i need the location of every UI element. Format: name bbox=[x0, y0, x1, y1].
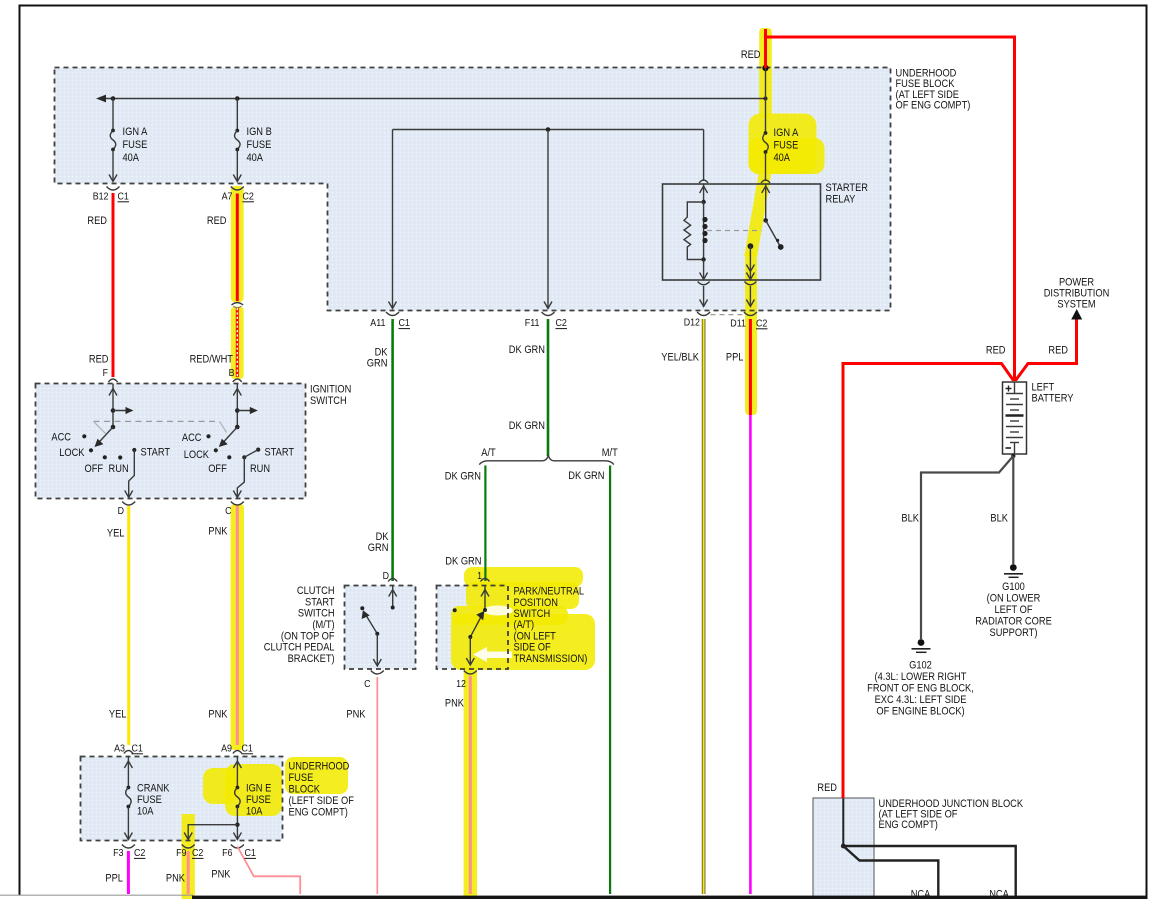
ground G102 symbol bbox=[918, 639, 925, 646]
park/neutral input wire + up arrow + node bbox=[484, 586, 486, 611]
wire DK GRN A/T leg to park/neutral pin 1 bbox=[484, 466, 486, 582]
relay terminal connector arcs (coil) bbox=[698, 282, 710, 285]
svg-text:40A: 40A bbox=[123, 152, 140, 164]
wire PNK park 12 to ground bus bbox=[469, 676, 472, 894]
fuse IGN A (right) element bbox=[764, 131, 768, 135]
ignition switch block fill bbox=[36, 384, 306, 499]
svg-text:(4.3L: LOWER RIGHT: (4.3L: LOWER RIGHT bbox=[875, 671, 967, 683]
highlight blob over IGN E fuse and lower fuse block label bbox=[225, 764, 282, 816]
svg-text:RED: RED bbox=[89, 354, 109, 366]
node relay arm end bbox=[778, 244, 784, 250]
junction block internal wire (red becomes black) bbox=[842, 799, 844, 847]
node bus tap IGN A fuse bbox=[111, 96, 116, 101]
svg-text:FUSE: FUSE bbox=[774, 140, 799, 152]
svg-text:FRONT OF ENG BLOCK,: FRONT OF ENG BLOCK, bbox=[867, 683, 974, 695]
svg-text:SIDE OF: SIDE OF bbox=[514, 642, 551, 654]
fuse IGN B out wire bbox=[236, 150, 238, 181]
svg-text:A7: A7 bbox=[222, 192, 233, 203]
svg-text:YEL: YEL bbox=[107, 528, 125, 540]
wire PNK F9 to ground bus bbox=[187, 851, 190, 894]
node junction block split bbox=[841, 844, 846, 849]
svg-text:OF ENGINE BLOCK): OF ENGINE BLOCK) bbox=[876, 706, 964, 718]
svg-text:M/T: M/T bbox=[602, 447, 618, 459]
svg-text:A11: A11 bbox=[370, 318, 386, 329]
svg-text:(ON LOWER: (ON LOWER bbox=[987, 593, 1041, 605]
svg-text:C1: C1 bbox=[242, 744, 254, 755]
svg-text:(LEFT SIDE OF: (LEFT SIDE OF bbox=[289, 795, 355, 807]
white arrow cut-out in park/neutral highlight bbox=[473, 647, 512, 662]
wire: bus2 down to A11 bbox=[392, 130, 394, 308]
svg-text:TRANSMISSION): TRANSMISSION) bbox=[514, 653, 588, 665]
relay coil winding bbox=[703, 202, 705, 260]
svg-text:PPL: PPL bbox=[726, 352, 744, 364]
ignition switch pole 2: entry wire bbox=[236, 384, 238, 428]
underhood fuse block (lower) fill bbox=[81, 757, 283, 841]
svg-text:EXC 4.3L: LEFT SIDE: EXC 4.3L: LEFT SIDE bbox=[875, 694, 967, 706]
svg-text:DK GRN: DK GRN bbox=[445, 556, 481, 568]
clutch switch output wire bbox=[376, 634, 378, 666]
connector C arc (clutch) bbox=[371, 671, 384, 675]
svg-text:SUPPORT): SUPPORT) bbox=[990, 627, 1038, 639]
svg-text:F: F bbox=[103, 368, 108, 379]
connector D arc (ignition) bbox=[122, 502, 135, 506]
wire: bus2 down to F11 bbox=[547, 130, 549, 308]
connector B12 arc bbox=[107, 187, 120, 191]
underhood fuse block (lower) dashed outline bbox=[81, 757, 283, 841]
connector F6 arc bbox=[231, 845, 244, 849]
svg-text:SWITCH: SWITCH bbox=[310, 395, 347, 407]
svg-text:1: 1 bbox=[477, 571, 482, 582]
fuse IGN A (left) out wire bbox=[112, 150, 114, 181]
branch wire to F9 bbox=[188, 825, 237, 839]
crank fuse out wire + down arrow bbox=[127, 807, 129, 840]
junction block NCA wire 2 bbox=[843, 846, 938, 896]
svg-text:C2: C2 bbox=[192, 848, 204, 859]
svg-text:12: 12 bbox=[456, 679, 466, 690]
svg-text:STARTER: STARTER bbox=[826, 182, 869, 194]
svg-text:A9: A9 bbox=[221, 744, 232, 755]
park/neutral switch arm (closed to pin1) bbox=[470, 613, 483, 638]
junction block NCA wire 1 bbox=[843, 846, 1015, 896]
ignition positions pole2 bbox=[206, 434, 210, 438]
svg-text:(ON LEFT: (ON LEFT bbox=[514, 630, 557, 642]
connector arc relay contact top bbox=[761, 180, 770, 183]
wire PPL F3 to ground bus bbox=[127, 851, 130, 894]
svg-text:G100: G100 bbox=[1002, 581, 1025, 593]
connector arc relay coil top bbox=[699, 180, 708, 183]
svg-text:PARK/NEUTRAL: PARK/NEUTRAL bbox=[514, 586, 585, 598]
brace A/T M/T split bbox=[479, 456, 614, 465]
wire PNK clutch C to ground bus bbox=[376, 677, 378, 894]
svg-text:PPL: PPL bbox=[105, 873, 123, 885]
underhood fuse block (top) dashed outline bbox=[55, 68, 891, 311]
highlight band on RED feed wire at top bbox=[759, 28, 772, 118]
arrow down at A11 exit bbox=[389, 302, 397, 309]
svg-text:D: D bbox=[118, 506, 124, 517]
node pole1 junction bbox=[111, 408, 116, 413]
svg-text:RED: RED bbox=[986, 345, 1006, 357]
park/neutral position switch block dashed outline bbox=[437, 586, 509, 670]
park/neutral output wire bbox=[469, 637, 471, 665]
svg-text:PNK: PNK bbox=[445, 698, 465, 710]
wire DK GRN F11 to brace bbox=[547, 319, 550, 456]
svg-text:BLK: BLK bbox=[990, 513, 1008, 525]
arrow left end of bus bbox=[96, 95, 106, 103]
pole1 wiper arm toward LOCK bbox=[96, 427, 113, 446]
wire: bus inside top fuse block bbox=[104, 98, 766, 100]
wire RED A7 (upper segment) bbox=[236, 194, 239, 302]
ignition mechanical link dashed bbox=[94, 420, 220, 422]
svg-text:LOCK: LOCK bbox=[59, 447, 85, 459]
svg-text:OFF: OFF bbox=[208, 463, 227, 475]
svg-text:IGN A: IGN A bbox=[774, 127, 799, 139]
relay mechanical link (dashed) bbox=[707, 230, 762, 232]
node bus tap IGN B fuse bbox=[235, 96, 240, 101]
svg-text:C2: C2 bbox=[134, 848, 146, 859]
svg-text:A3: A3 bbox=[114, 744, 125, 755]
clutch start switch block dashed outline bbox=[345, 586, 416, 670]
connector arc ignition B entry bbox=[233, 379, 242, 382]
wire PPL D11 magenta segment to ground bus bbox=[749, 415, 752, 894]
connector arc A9 entry bbox=[233, 751, 242, 754]
connector F3 arc bbox=[122, 845, 135, 849]
node bus / battery feed junction bbox=[764, 97, 768, 101]
connector D12 arc bbox=[697, 312, 710, 316]
battery - mark bbox=[1006, 447, 1012, 449]
svg-text:UNDERHOOD: UNDERHOOD bbox=[289, 761, 350, 773]
svg-text:SWITCH: SWITCH bbox=[298, 608, 335, 620]
wire YEL ignition D to fuse block A3 bbox=[127, 506, 130, 745]
highlight band on PNK wire ignition C to fuse A9 bbox=[231, 504, 244, 750]
fuse IGN B feed wire bbox=[236, 99, 238, 130]
arrow down at A7 exit bbox=[233, 175, 241, 182]
node clutch arm pivot bbox=[375, 632, 379, 636]
svg-text:ACC: ACC bbox=[182, 432, 202, 444]
svg-text:DK GRN: DK GRN bbox=[568, 470, 604, 482]
svg-text:LOCK: LOCK bbox=[184, 449, 210, 461]
svg-text:YEL/BLK: YEL/BLK bbox=[661, 352, 699, 364]
wire RED B12 to ignition F bbox=[112, 193, 115, 377]
wire relay output down with arrows bbox=[749, 246, 751, 279]
node bus2 tap F11 bbox=[546, 127, 551, 132]
svg-text:40A: 40A bbox=[247, 152, 264, 164]
svg-text:40A: 40A bbox=[774, 152, 791, 164]
svg-text:A/T: A/T bbox=[481, 447, 496, 459]
highlight band on PNK wire below F9 bbox=[182, 814, 195, 899]
svg-text:C1: C1 bbox=[118, 192, 130, 203]
svg-text:RED: RED bbox=[741, 49, 761, 61]
ground G100 symbol bbox=[1010, 564, 1017, 571]
svg-text:SYSTEM: SYSTEM bbox=[1057, 299, 1095, 311]
clutch switch fixed contact bbox=[360, 606, 364, 610]
node relay coil top bbox=[701, 200, 705, 204]
wire PNK F6 diagonal run bbox=[237, 847, 300, 895]
pole2 START to C output wire bbox=[237, 450, 258, 497]
svg-text:RED: RED bbox=[1048, 345, 1068, 357]
svg-text:FUSE: FUSE bbox=[137, 794, 162, 806]
ignition switch pole 1: entry wire bbox=[112, 384, 114, 428]
svg-text:RED: RED bbox=[207, 215, 227, 227]
relay terminal connector arcs (contact) bbox=[744, 282, 756, 285]
wire BLK battery to G100 bbox=[1012, 456, 1014, 564]
svg-text:C2: C2 bbox=[556, 318, 568, 329]
svg-text:C: C bbox=[364, 679, 370, 690]
svg-text:(ON TOP OF: (ON TOP OF bbox=[281, 630, 335, 642]
connector F11 arc bbox=[542, 312, 555, 316]
pole2 wiper arm toward LOCK bbox=[220, 427, 237, 446]
fuse IGN B element bbox=[235, 129, 239, 133]
svg-text:BRACKET): BRACKET) bbox=[288, 653, 335, 665]
svg-text:RED: RED bbox=[87, 215, 107, 227]
wire DK GRN M/T leg to ground bus bbox=[609, 466, 611, 895]
wire relay coil terminal to D12 bbox=[703, 286, 705, 307]
svg-text:B12: B12 bbox=[93, 192, 109, 203]
fuse CRANK element bbox=[126, 786, 130, 790]
battery + mark bbox=[1006, 386, 1012, 392]
svg-text:C: C bbox=[225, 506, 231, 517]
svg-text:IGN B: IGN B bbox=[247, 126, 272, 138]
underhood fuse block (top) fill bbox=[55, 68, 891, 311]
svg-text:FUSE: FUSE bbox=[246, 794, 271, 806]
clutch start switch block fill bbox=[345, 586, 416, 670]
svg-text:PNK: PNK bbox=[208, 709, 228, 721]
wire BLK battery to G102 bbox=[921, 456, 1013, 639]
svg-text:DK GRN: DK GRN bbox=[445, 471, 481, 483]
svg-text:F3: F3 bbox=[113, 848, 124, 859]
svg-text:FUSE: FUSE bbox=[247, 139, 272, 151]
relay switch arm bbox=[766, 220, 781, 246]
svg-text:RED/WHT: RED/WHT bbox=[190, 354, 234, 366]
connector arc clutch D entry bbox=[388, 579, 397, 582]
svg-text:IGN A: IGN A bbox=[123, 126, 148, 138]
wire PNK ignition C to fuse block A9 bbox=[236, 506, 239, 745]
svg-text:RADIATOR CORE: RADIATOR CORE bbox=[975, 616, 1052, 628]
svg-text:RUN: RUN bbox=[250, 463, 270, 475]
connector C arc (ignition) bbox=[231, 502, 244, 506]
fuse IGN A (left) feed wire bbox=[112, 99, 114, 130]
wire relay contact terminal to D11 bbox=[749, 286, 751, 307]
ignition positions pole1 bbox=[82, 434, 86, 438]
svg-text:BLK: BLK bbox=[901, 513, 919, 525]
svg-text:FUSE: FUSE bbox=[123, 139, 148, 151]
relay contact entry wire + up arrow bbox=[765, 184, 767, 220]
park/neutral unused contact bbox=[453, 608, 457, 612]
highlight blob over park/neutral switch label bbox=[464, 567, 583, 587]
fuse IGN A (left) element bbox=[111, 129, 115, 133]
svg-text:BATTERY: BATTERY bbox=[1032, 393, 1075, 405]
arrow to power distribution system bbox=[1071, 309, 1082, 320]
svg-text:(M/T): (M/T) bbox=[312, 619, 334, 631]
svg-text:C2: C2 bbox=[756, 319, 768, 330]
wire RED battery to junction block bbox=[843, 364, 1014, 799]
svg-text:10A: 10A bbox=[137, 806, 154, 818]
wire PPL D11 (red drawn segment) bbox=[749, 319, 752, 415]
node battery negative bbox=[1011, 454, 1015, 458]
connector arc ignition F entry bbox=[109, 379, 118, 382]
svg-text:NCA: NCA bbox=[989, 889, 1009, 899]
node pole1 pivot bbox=[111, 425, 116, 430]
svg-text:IGNITION: IGNITION bbox=[310, 384, 351, 396]
highlight band through starter relay (slanted) bbox=[744, 170, 772, 256]
connector arc A3 entry bbox=[124, 751, 133, 754]
clutch switch input wire + up arrow + node bbox=[392, 586, 394, 608]
node park arm pivot bbox=[468, 635, 472, 639]
IGN E fuse input wire + up arrow bbox=[236, 757, 238, 788]
arrow down at B12 exit bbox=[109, 175, 117, 182]
svg-text:LEFT OF: LEFT OF bbox=[995, 604, 1033, 616]
node pole2 junction bbox=[235, 408, 240, 413]
node relay coil bottom bbox=[701, 257, 705, 261]
highlight band on PNK wire below park/neutral pin 12 bbox=[464, 667, 477, 899]
wire: bus2 inside top fuse block bbox=[393, 129, 704, 131]
svg-text:OFF: OFF bbox=[85, 463, 104, 475]
highlight blob over IGN A fuse (right) bbox=[749, 114, 817, 174]
svg-text:YEL: YEL bbox=[109, 709, 127, 721]
svg-text:FUSE: FUSE bbox=[289, 772, 314, 784]
svg-text:RELAY: RELAY bbox=[826, 194, 856, 206]
svg-text:D12: D12 bbox=[684, 318, 701, 329]
svg-text:OF ENG COMPT): OF ENG COMPT) bbox=[896, 100, 971, 112]
svg-text:GRN: GRN bbox=[368, 542, 389, 554]
svg-text:NCA: NCA bbox=[911, 889, 931, 899]
wire YEL/BLK D12 to ground bus bbox=[702, 319, 706, 894]
svg-text:F9: F9 bbox=[176, 848, 187, 859]
svg-text:C2: C2 bbox=[243, 192, 255, 203]
ground bus black bar bbox=[192, 896, 1148, 899]
svg-text:IGN E: IGN E bbox=[246, 783, 271, 795]
crank fuse input wire + up arrow bbox=[127, 757, 129, 788]
svg-text:PNK: PNK bbox=[166, 873, 186, 885]
svg-text:B: B bbox=[229, 368, 235, 379]
wire DK GRN A11 to clutch switch D bbox=[391, 319, 394, 581]
connector F9 arc bbox=[182, 845, 195, 849]
fuse IGN A (right) out wire to relay bbox=[765, 152, 767, 181]
svg-text:D11: D11 bbox=[730, 319, 746, 330]
wire RED/WHT to ignition B bbox=[236, 308, 239, 377]
relay coil out wire + down arrow bbox=[703, 260, 705, 280]
arrow down at F11 exit bbox=[544, 302, 552, 309]
wire RED battery feed at top bbox=[766, 29, 1015, 381]
node IGN E branch junction bbox=[235, 823, 239, 827]
pole1 side arrow bbox=[113, 410, 130, 412]
node pole2 pivot bbox=[235, 425, 240, 430]
wire: bus2 down to relay coil bbox=[703, 130, 705, 182]
svg-text:RUN: RUN bbox=[109, 463, 129, 475]
svg-text:START: START bbox=[141, 447, 171, 459]
fuse IGN E element bbox=[236, 786, 240, 790]
svg-text:D: D bbox=[383, 571, 389, 582]
svg-text:CRANK: CRANK bbox=[137, 783, 170, 795]
underhood junction block fill bbox=[813, 798, 874, 899]
svg-text:START: START bbox=[265, 447, 295, 459]
connector 12 arc (park) bbox=[464, 671, 477, 675]
fuse IGN A (right) feed wire bbox=[765, 68, 767, 132]
highlight band on RED wire A7-C2 to ignition switch B bbox=[231, 186, 244, 302]
svg-text:DK GRN: DK GRN bbox=[509, 344, 545, 356]
svg-text:DK GRN: DK GRN bbox=[509, 420, 545, 432]
ignition switch block dashed outline bbox=[36, 384, 306, 499]
connector D11 arc bbox=[744, 312, 757, 316]
pole2 side arrow bbox=[237, 410, 254, 412]
svg-text:CLUTCH: CLUTCH bbox=[297, 585, 335, 597]
IGN E fuse out wire to F6 bbox=[236, 807, 238, 840]
svg-text:START: START bbox=[305, 596, 335, 608]
svg-text:(A/T): (A/T) bbox=[514, 619, 535, 631]
node relay contact fixed bbox=[763, 218, 768, 223]
wire RED battery to power distribution bbox=[1016, 318, 1077, 381]
clutch switch arm (open) bbox=[364, 612, 377, 634]
svg-text:F6: F6 bbox=[222, 848, 233, 859]
highlight band on PPL wire below relay to mid page bbox=[745, 252, 757, 415]
svg-text:G102: G102 bbox=[909, 660, 932, 672]
starter relay box bbox=[663, 184, 821, 280]
svg-text:C1: C1 bbox=[245, 848, 257, 859]
svg-text:C1: C1 bbox=[132, 744, 144, 755]
relay coil entry wire + up arrow bbox=[703, 184, 705, 202]
node relay output contact bbox=[748, 243, 754, 249]
svg-text:PNK: PNK bbox=[208, 526, 228, 538]
pole1 START to D output wire bbox=[129, 450, 135, 497]
relay resistor branch bbox=[684, 202, 704, 260]
svg-text:RED: RED bbox=[817, 782, 837, 794]
svg-text:PNK: PNK bbox=[211, 869, 231, 881]
svg-text:PNK: PNK bbox=[346, 709, 366, 721]
splice connector arcs on A7 wire bbox=[232, 303, 244, 305]
svg-text:ACC: ACC bbox=[51, 432, 71, 444]
svg-text:CLUTCH PEDAL: CLUTCH PEDAL bbox=[264, 642, 335, 654]
connector arc park pin1 entry bbox=[481, 579, 490, 582]
node battery feed enters fuse block bbox=[762, 65, 768, 71]
connector A7 arc bbox=[231, 187, 244, 191]
svg-text:F11: F11 bbox=[525, 318, 540, 329]
svg-text:10A: 10A bbox=[246, 806, 263, 818]
left battery symbol bbox=[1003, 382, 1027, 454]
svg-text:ENG COMPT): ENG COMPT) bbox=[879, 819, 938, 831]
svg-text:C1: C1 bbox=[399, 318, 411, 329]
ground bus gray underline bbox=[0, 894, 193, 896]
svg-text:ENG COMPT): ENG COMPT) bbox=[289, 807, 348, 819]
svg-text:GRN: GRN bbox=[367, 358, 388, 370]
park/neutral position switch block fill bbox=[437, 586, 509, 670]
connector link dash D12-D11 (same connector C2) bbox=[711, 314, 744, 316]
connector A11 arc bbox=[386, 312, 399, 316]
svg-text:BLOCK: BLOCK bbox=[289, 784, 321, 796]
